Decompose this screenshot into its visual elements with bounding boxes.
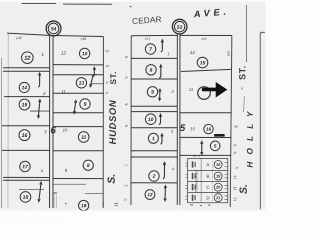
lot line bbox=[2, 149, 49, 151]
svg-text:5: 5 bbox=[180, 123, 186, 134]
lot line bbox=[180, 136, 231, 138]
svg-text:B: B bbox=[206, 174, 209, 179]
svg-text:1: 1 bbox=[152, 136, 155, 142]
grid tick marks row B bbox=[185, 174, 227, 178]
svg-text:74': 74' bbox=[235, 166, 239, 170]
lot line bbox=[53, 178, 103, 180]
grid tick marks row D bbox=[185, 196, 227, 200]
grid tick marks row C bbox=[185, 185, 227, 189]
lot line bbox=[53, 150, 103, 152]
lot divider double line east bbox=[52, 36, 54, 208]
svg-text:40: 40 bbox=[125, 124, 129, 128]
partial lot line bbox=[19, 189, 44, 191]
grid tick marks row A bbox=[185, 163, 227, 167]
svg-text:10: 10 bbox=[63, 127, 68, 132]
lot line bbox=[53, 64, 103, 66]
lot line bbox=[4, 96, 49, 98]
frontage arrow bbox=[159, 113, 162, 125]
white margin bottom bbox=[0, 210, 271, 220]
lot line bbox=[181, 69, 231, 71]
svg-text:HOLLY: HOLLY bbox=[246, 104, 255, 167]
lot circle 12 mid bbox=[145, 190, 155, 200]
svg-text:14: 14 bbox=[22, 85, 28, 91]
double-headed arrow right bbox=[200, 140, 203, 156]
lot circle 18 bbox=[20, 192, 31, 203]
left block north edge west part bbox=[7, 33, 50, 35]
svg-text:12: 12 bbox=[147, 192, 153, 197]
lot circle 8 mid bbox=[146, 65, 156, 75]
svg-text:54: 54 bbox=[51, 27, 57, 33]
monument circle 53 bbox=[172, 19, 187, 34]
frontage arrow bbox=[160, 133, 163, 144]
tiny tick pair b bbox=[233, 187, 236, 189]
double-headed arrow mid bbox=[163, 185, 167, 203]
lot circle 19 bbox=[79, 200, 89, 210]
svg-text:18: 18 bbox=[23, 195, 29, 201]
svg-text:16: 16 bbox=[22, 133, 28, 139]
middle block north edge bbox=[131, 34, 177, 37]
svg-text:TOWNHOMES: TOWNHOMES bbox=[194, 169, 198, 192]
frontage arrow bbox=[38, 72, 41, 87]
svg-text:40: 40 bbox=[125, 102, 129, 106]
svg-text:24': 24' bbox=[232, 144, 237, 147]
lot circle 10 mid bbox=[145, 114, 156, 125]
lot line bbox=[53, 112, 103, 114]
left block east edge bbox=[102, 36, 104, 208]
lot divider double line west bbox=[49, 36, 51, 208]
frontage arrow bbox=[161, 39, 164, 52]
tiny tick pair a bbox=[233, 176, 236, 178]
svg-text:148': 148' bbox=[16, 36, 23, 40]
svg-text:7: 7 bbox=[149, 47, 152, 53]
tiny equals mark bbox=[114, 203, 118, 205]
north block bottom line west segment bbox=[22, 2, 56, 4]
lot line lane bbox=[131, 111, 177, 113]
lot line bbox=[53, 126, 103, 128]
lot circle 12 bbox=[22, 52, 34, 64]
svg-text:S.: S. bbox=[238, 184, 250, 194]
svg-text:21: 21 bbox=[215, 195, 220, 200]
scanned paper background bbox=[0, 0, 271, 220]
svg-text:15: 15 bbox=[22, 102, 28, 108]
svg-text:15: 15 bbox=[200, 60, 206, 66]
svg-text:13: 13 bbox=[79, 81, 85, 87]
svg-text:20: 20 bbox=[215, 185, 221, 190]
svg-text:ST.: ST. bbox=[237, 65, 247, 80]
left block north edge east part bbox=[54, 35, 104, 36]
svg-text:8: 8 bbox=[87, 163, 90, 169]
partial lot line bbox=[53, 183, 86, 185]
svg-text:1: 1 bbox=[167, 51, 169, 56]
svg-text:S.: S. bbox=[106, 174, 118, 184]
lot line bbox=[131, 182, 177, 184]
svg-text:153': 153' bbox=[145, 37, 151, 41]
svg-text:9: 9 bbox=[84, 102, 87, 108]
lot circle 14 bbox=[19, 82, 29, 92]
lot circle 10 bbox=[79, 48, 89, 58]
svg-text:2.4: 2.4 bbox=[123, 184, 128, 187]
lot circle 5 bbox=[210, 141, 220, 151]
tiny marks above grid bbox=[193, 155, 199, 156]
lot line bbox=[180, 112, 231, 114]
svg-text:12: 12 bbox=[61, 51, 67, 57]
svg-text:24': 24' bbox=[232, 152, 237, 155]
svg-text:40: 40 bbox=[125, 55, 129, 59]
svg-text:2: 2 bbox=[152, 174, 156, 180]
svg-text:160': 160' bbox=[227, 50, 231, 56]
tiny dotted marks bbox=[54, 195, 56, 208]
right block east edge bbox=[230, 35, 232, 207]
svg-text:7.5': 7.5' bbox=[124, 164, 129, 167]
survey dot on Cedar Ave bbox=[130, 6, 132, 8]
lot line bbox=[131, 127, 177, 129]
svg-text:9: 9 bbox=[151, 90, 154, 96]
svg-text:10: 10 bbox=[82, 51, 88, 57]
svg-text:12: 12 bbox=[190, 50, 195, 55]
svg-text:148': 148' bbox=[80, 37, 87, 41]
svg-text:20: 20 bbox=[123, 198, 127, 201]
frontage arrow bbox=[163, 161, 166, 179]
lot line bbox=[180, 154, 231, 156]
lot circle 7 bbox=[145, 44, 155, 54]
lot line bbox=[3, 176, 49, 178]
lot circle 16 bbox=[19, 130, 30, 141]
svg-text:6: 6 bbox=[51, 125, 57, 136]
svg-text:C: C bbox=[206, 185, 209, 190]
svg-text:96': 96' bbox=[234, 125, 238, 129]
lot line bbox=[2, 125, 49, 127]
block divider double line west bbox=[176, 34, 178, 205]
double-headed arrow bbox=[158, 88, 162, 102]
lot line (double) bbox=[3, 70, 49, 72]
svg-text:1: 1 bbox=[41, 52, 44, 57]
lot line (double) bbox=[3, 179, 49, 181]
lot circle 13 bbox=[76, 78, 86, 88]
svg-text:10: 10 bbox=[125, 75, 129, 79]
lot circle 16 bbox=[204, 124, 213, 133]
east block corner with hook bbox=[260, 32, 265, 209]
lot line bbox=[3, 67, 49, 69]
lot circle 8 bbox=[83, 160, 93, 170]
svg-text:153': 153' bbox=[201, 37, 207, 41]
lot line bbox=[131, 57, 177, 59]
unit cell text marks row 4 bbox=[192, 194, 196, 200]
svg-text:16': 16' bbox=[106, 64, 110, 68]
lot line bbox=[131, 78, 177, 80]
townhome grid box bbox=[188, 158, 228, 202]
lot circle 9 bbox=[80, 99, 90, 109]
svg-text:16: 16 bbox=[206, 127, 212, 132]
lot circle under arrow bbox=[198, 87, 211, 100]
partial lot line low bbox=[85, 192, 103, 194]
lot circle 11 bbox=[78, 132, 89, 143]
svg-text:A: A bbox=[207, 162, 210, 167]
lot circle 2 mid bbox=[149, 171, 159, 181]
tiny mark bbox=[103, 201, 104, 205]
lot circle 1 mid bbox=[148, 133, 158, 143]
monument circle 54 bbox=[46, 21, 61, 36]
lot line bbox=[53, 92, 103, 94]
unit cell text marks row 1 bbox=[192, 161, 196, 167]
svg-text:53: 53 bbox=[177, 25, 183, 31]
unit cell text marks row 3 bbox=[192, 184, 196, 190]
frontage arrow hanging bbox=[89, 75, 93, 88]
unit circle 19 bbox=[214, 172, 222, 180]
lot circle 9 mid bbox=[147, 87, 157, 97]
unit cell text marks row 2 bbox=[192, 173, 196, 179]
svg-text:10: 10 bbox=[190, 126, 195, 131]
unit circle 21 bbox=[214, 194, 222, 202]
svg-text:11: 11 bbox=[189, 87, 193, 92]
black bar mark bbox=[214, 134, 224, 137]
partial lot line bbox=[30, 110, 49, 112]
svg-text:D: D bbox=[206, 195, 209, 200]
tiny tick pair c bbox=[233, 198, 236, 200]
tiny marks below grid bbox=[190, 205, 210, 206]
Holly St west curb line (mid segment) bbox=[243, 96, 246, 112]
svg-text:5: 5 bbox=[214, 143, 217, 148]
svg-text:11: 11 bbox=[81, 135, 86, 141]
right block north edge bbox=[180, 34, 232, 36]
scan edge left border bbox=[0, 58, 2, 208]
svg-text:73': 73' bbox=[105, 49, 110, 53]
lot circle 17 bbox=[20, 161, 30, 171]
Holly St west curb line (upper) bbox=[246, 5, 248, 62]
svg-text:8: 8 bbox=[150, 68, 153, 74]
lot line lane bbox=[131, 156, 177, 158]
north block bottom line east segment bbox=[63, 3, 112, 5]
frontage arrow bbox=[159, 64, 162, 78]
svg-text:12: 12 bbox=[24, 56, 31, 62]
lot line bbox=[131, 105, 177, 107]
left block west edge (faint) bbox=[7, 33, 9, 207]
double-headed arrow bbox=[73, 99, 77, 115]
svg-text:2: 2 bbox=[42, 91, 46, 96]
lot line bbox=[53, 74, 103, 76]
unit circle 20 bbox=[214, 183, 222, 191]
svg-text:HUDSON: HUDSON bbox=[108, 99, 119, 144]
frontage arrow bbox=[93, 66, 96, 77]
middle block west edge bbox=[130, 36, 132, 205]
lot line bbox=[131, 150, 177, 152]
svg-text:19: 19 bbox=[81, 203, 87, 209]
svg-text:10: 10 bbox=[148, 117, 154, 123]
svg-text:ST.: ST. bbox=[109, 71, 118, 84]
lot circle 15 bbox=[197, 57, 208, 68]
svg-text:17: 17 bbox=[22, 164, 28, 170]
double-headed arrow bbox=[37, 99, 42, 119]
double-headed arrow bbox=[37, 181, 42, 203]
partial corner segment bbox=[91, 83, 103, 85]
lot circle 15 bbox=[19, 99, 30, 110]
block divider double line east bbox=[179, 34, 181, 205]
subject parcel big arrow bbox=[202, 82, 228, 97]
unit circle 18 bbox=[214, 160, 222, 168]
